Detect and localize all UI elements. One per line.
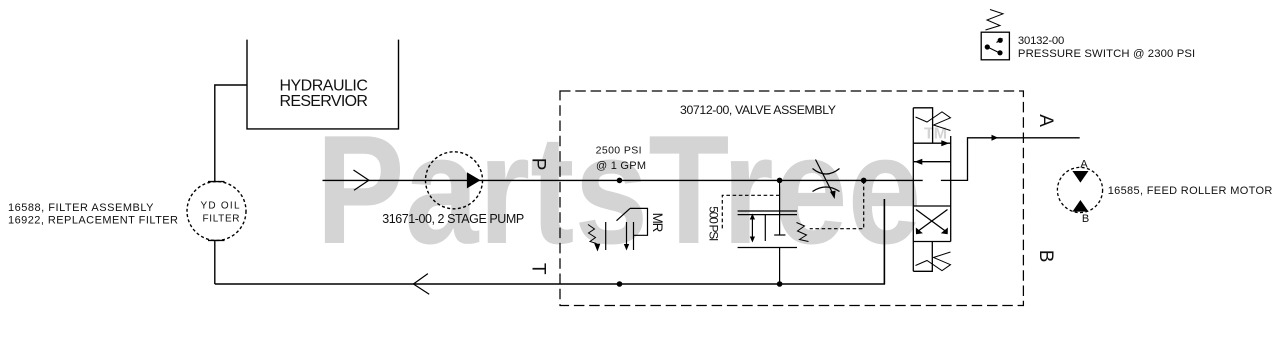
node filter bottom tick <box>208 239 225 241</box>
watermark PartsTree <box>316 102 947 276</box>
reducing valve T tick <box>774 234 785 236</box>
svg-text:MR: MR <box>650 213 665 233</box>
wire T riser <box>883 199 885 284</box>
svg-text:YD OIL: YD OIL <box>201 200 240 211</box>
reducing valve spring <box>797 223 809 242</box>
arrow T flow left <box>413 274 429 295</box>
reducing valve bottom rail <box>738 247 797 249</box>
variable restrictor arrow <box>816 160 833 194</box>
directional valve X arrows <box>918 210 948 232</box>
relief valve MR spring <box>588 225 597 244</box>
arrow P flow right <box>354 170 369 190</box>
wire P exit stub inside valve <box>941 179 951 181</box>
pilot line dashed reducing valve <box>722 195 779 229</box>
pressure switch spring <box>986 10 1004 31</box>
svg-text:A: A <box>1080 159 1088 171</box>
svg-text:T: T <box>528 263 549 275</box>
relief valve MR arrow line <box>626 222 628 245</box>
svg-text:500 PSI: 500 PSI <box>707 206 721 241</box>
svg-text:30132-00: 30132-00 <box>1018 35 1064 47</box>
relief valve MR stub left <box>605 222 607 250</box>
motor M1 circle <box>1057 167 1102 212</box>
pump triangle <box>467 172 481 188</box>
node junction T2 <box>777 281 783 287</box>
filter F1 (dashed circle) <box>187 182 246 241</box>
svg-text:B: B <box>1035 250 1056 263</box>
svg-text:31671-00, 2 STAGE PUMP: 31671-00, 2 STAGE PUMP <box>382 212 524 226</box>
relief valve MR spring arrowhead <box>594 243 600 251</box>
wire tank to filter <box>215 85 247 182</box>
directional valve top spring <box>916 112 951 131</box>
directional valve DV1 left edge <box>912 108 914 271</box>
wire P line pump suction <box>323 179 426 181</box>
motor triangle top <box>1072 171 1088 183</box>
node filter top tick <box>208 181 225 183</box>
svg-text:16588, FILTER ASSEMBLY: 16588, FILTER ASSEMBLY <box>8 202 154 214</box>
wire reducing valve drain to T line <box>779 248 781 285</box>
wire valve to A riser <box>951 138 1080 181</box>
svg-text:PRESSURE SWITCH @ 2300 PSI: PRESSURE SWITCH @ 2300 PSI <box>1018 48 1195 60</box>
node junction P3 <box>861 178 867 184</box>
relief valve MR flow diagonal <box>617 208 631 220</box>
svg-text:2500 PSI: 2500 PSI <box>596 145 642 157</box>
directional valve bottom spring <box>916 252 951 271</box>
svg-text:30712-00, VALVE ASSEMBLY: 30712-00, VALVE ASSEMBLY <box>680 103 836 117</box>
svg-text:RESERVIOR: RESERVIOR <box>279 93 368 110</box>
pump circle 31671-00 <box>426 152 483 209</box>
svg-text:HYDRAULIC: HYDRAULIC <box>279 78 368 95</box>
directional valve divider 1 with arrow right <box>913 142 950 144</box>
svg-text:16922, REPLACEMENT FILTER: 16922, REPLACEMENT FILTER <box>8 215 178 227</box>
pilot line dashed restrictor to spring <box>810 180 864 228</box>
reducing valve double arrow <box>751 218 753 238</box>
pressure switch box 30132-00 <box>981 32 1009 60</box>
arrow A flow right <box>992 135 999 141</box>
motor triangle bottom <box>1072 200 1088 212</box>
node junction P2 <box>777 178 783 184</box>
hydraulic reservoir tank T1 <box>247 40 399 129</box>
svg-text:P: P <box>528 158 549 171</box>
wire P line through pump <box>426 179 923 181</box>
svg-text:FILTER: FILTER <box>203 213 240 224</box>
directional valve divider 3 <box>913 241 950 243</box>
svg-text:A: A <box>1035 114 1056 127</box>
wire P2 down into reducing valve <box>779 180 781 235</box>
directional valve right edge <box>950 136 952 242</box>
relief valve MR arrowhead <box>624 244 629 251</box>
variable restrictor arcs <box>813 169 840 175</box>
directional valve bottom cap box <box>913 242 932 272</box>
node junction P1 <box>617 178 623 184</box>
reducing valve inner line <box>764 215 766 241</box>
svg-text:B: B <box>1082 213 1089 225</box>
reducing valve 500 PSI top rails <box>738 210 797 212</box>
wire filter to T line <box>214 240 216 284</box>
pressure switch contacts <box>998 38 1003 43</box>
directional valve divider 2 <box>913 205 950 207</box>
relief valve MR pilot bracket <box>630 208 648 235</box>
directional valve flow line arrow left <box>913 161 950 163</box>
node junction T1 <box>617 281 623 287</box>
relief valve MR stub right <box>633 222 635 250</box>
wire T return line <box>215 199 885 284</box>
valve assembly dashed box 30712-00 <box>560 91 1023 306</box>
directional valve top cap box <box>913 108 932 143</box>
svg-text:@ 1 GPM: @ 1 GPM <box>596 160 646 172</box>
svg-text:16585, FEED ROLLER MOTOR: 16585, FEED ROLLER MOTOR <box>1108 185 1273 197</box>
